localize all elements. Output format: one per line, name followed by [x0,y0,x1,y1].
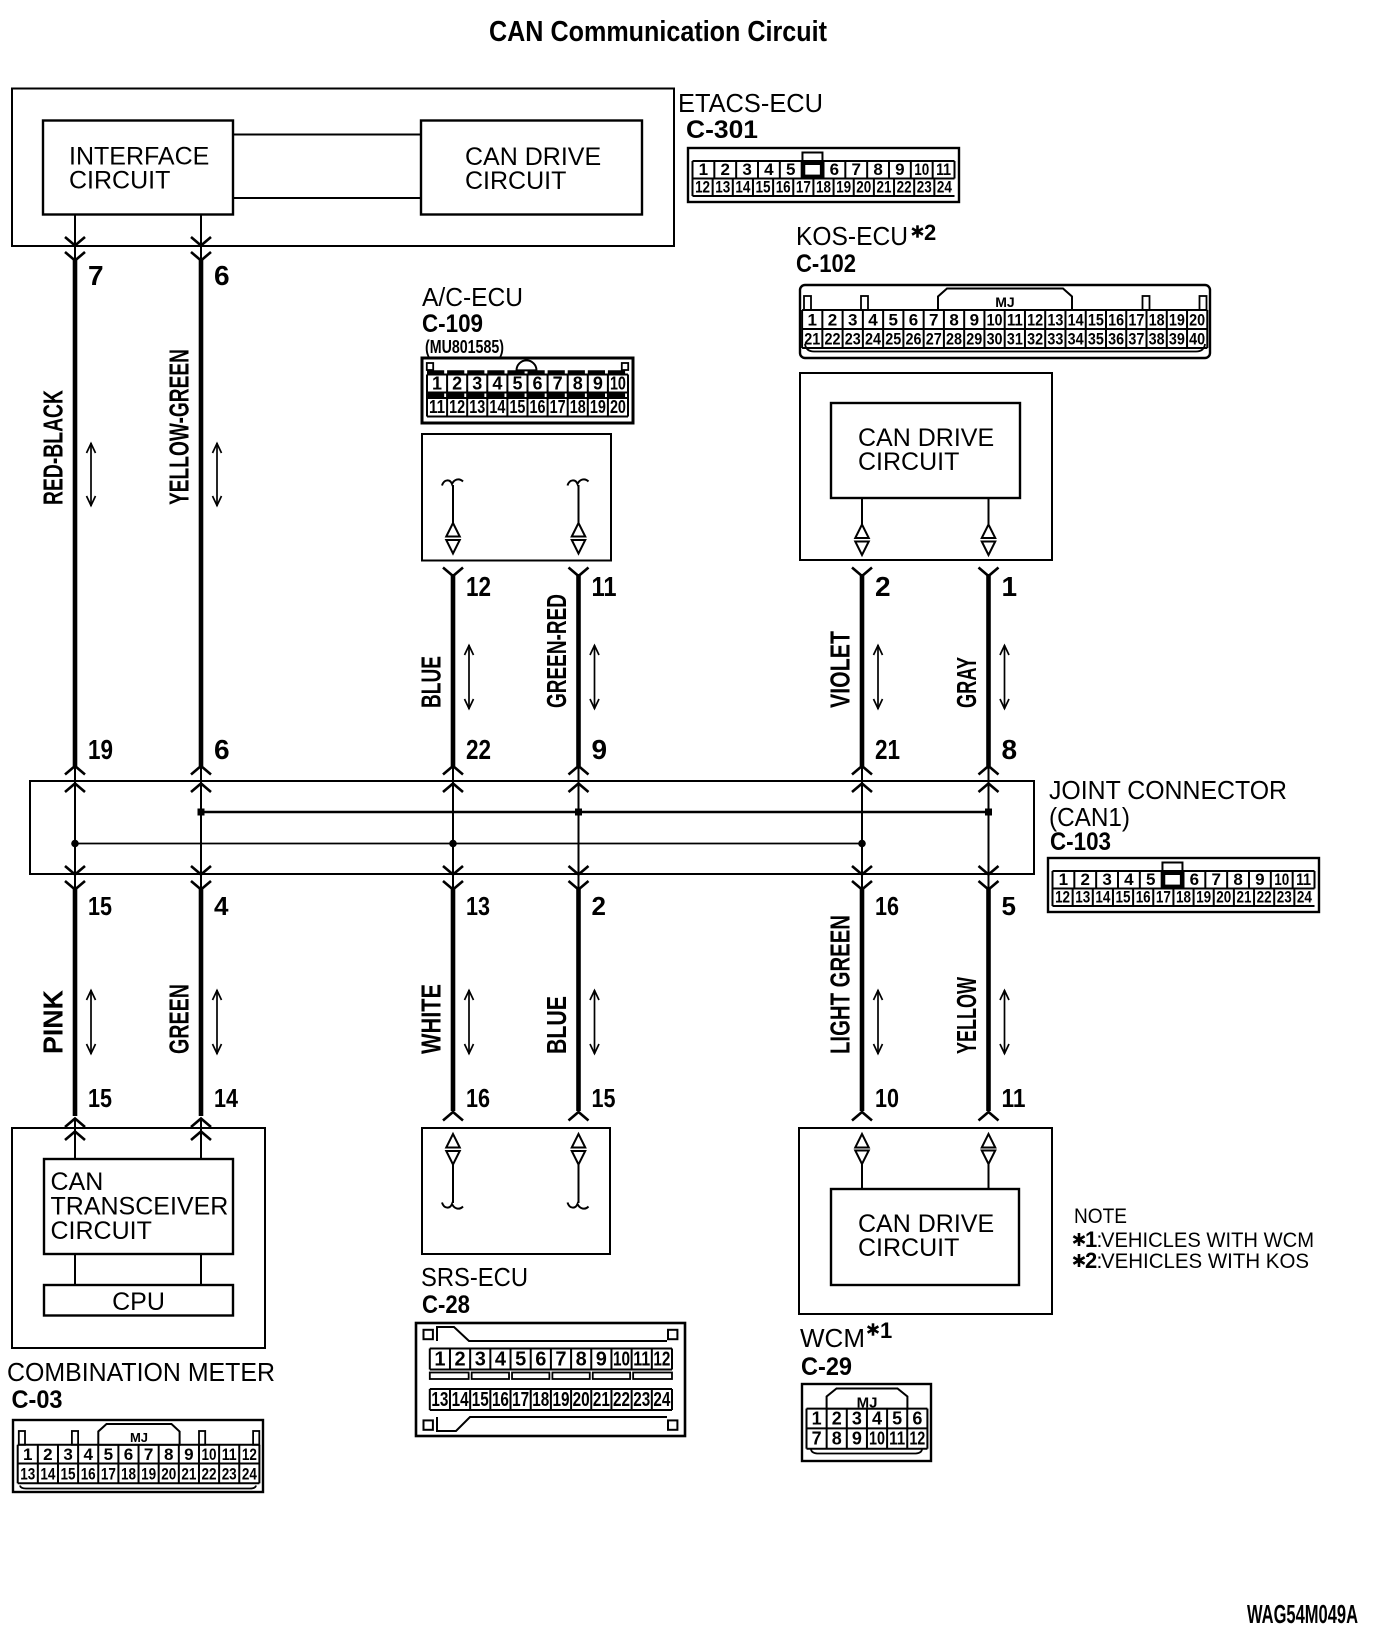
svg-text:6: 6 [214,734,230,765]
svg-text:MJ: MJ [857,1395,878,1412]
pin 2 (joint connector lower) [592,891,606,921]
wire label PINK [38,990,69,1054]
bidirectional arrow (YELLOW-GREEN wire) [213,443,222,506]
wire label GRAY [951,657,982,708]
interface circuit block U1 [43,121,233,215]
drawing number WAG54M049A [1247,1599,1358,1629]
CAN bus line (lower) [71,840,866,848]
label JOINT CONNECTOR (CAN1) [1049,775,1287,832]
wire LIGHT GREEN to WCM pin 10 [860,888,865,1111]
connector label C-29 [801,1353,852,1381]
svg-text:24: 24 [937,178,952,197]
svg-text:10: 10 [869,1429,885,1449]
wire end at SRS pin 15 (terminal chevron) [569,1112,589,1121]
wire label YELLOW [951,977,982,1054]
wire KOS pin 2 (VIOLET) [852,568,872,767]
CAN drive circuit block (ETACS) [421,121,642,215]
svg-text:GREEN-RED: GREEN-RED [541,594,572,708]
svg-text:25: 25 [885,329,901,348]
svg-text:23: 23 [633,1389,650,1411]
svg-text:CIRCUIT: CIRCUIT [858,448,959,476]
svg-text:16: 16 [776,178,791,197]
svg-text:5: 5 [892,1409,902,1429]
bidirectional arrow (WHITE wire) [465,990,474,1054]
svg-text:22: 22 [466,734,491,765]
svg-text:GREEN: GREEN [164,984,195,1054]
svg-text:8: 8 [873,160,882,179]
svg-text:21: 21 [593,1389,610,1411]
svg-text:17: 17 [1156,888,1171,907]
svg-text:4: 4 [495,1349,507,1371]
svg-text:10: 10 [610,374,626,394]
wire label RED-BLACK [38,390,69,505]
svg-text:C-301: C-301 [686,116,758,144]
svg-text:5: 5 [889,310,898,329]
svg-text:11: 11 [1296,870,1311,889]
svg-text:10: 10 [613,1349,630,1371]
svg-text:4: 4 [872,1409,882,1429]
svg-text:13: 13 [1047,310,1063,329]
svg-text:COMBINATION METER: COMBINATION METER [7,1357,275,1387]
svg-text:MJ: MJ [130,1430,148,1445]
wire ETACS pin 6 (YELLOW-GREEN) upper segment [191,215,211,767]
svg-text:5: 5 [512,374,522,394]
wire WHITE to SRS pin 16 [451,888,456,1111]
svg-text:18: 18 [121,1465,136,1484]
svg-text:LIGHT GREEN: LIGHT GREEN [825,915,856,1054]
connector C-102 pin grid [800,285,1210,358]
svg-text:18: 18 [532,1389,549,1411]
svg-text:3: 3 [63,1445,72,1464]
svg-text:9: 9 [852,1429,862,1449]
svg-text:1: 1 [699,160,708,179]
svg-text:29: 29 [966,329,982,348]
svg-text:C-103: C-103 [1050,828,1111,856]
svg-text:24: 24 [653,1389,671,1411]
svg-text:4: 4 [868,310,878,329]
label A/C-ECU [422,282,523,312]
pin 5 (joint connector lower) [1002,891,1016,921]
svg-text:6: 6 [909,310,918,329]
wire through joint connector at x=578.5 [569,766,589,890]
svg-text:CIRCUIT: CIRCUIT [51,1217,152,1245]
wire A/C pin 12 (BLUE) [443,568,463,767]
svg-text:15: 15 [88,1083,112,1113]
svg-text:1: 1 [807,310,816,329]
svg-text:PINK: PINK [38,990,69,1054]
pin 7 [88,260,104,291]
pin 12 [466,571,491,602]
svg-text:8: 8 [1002,734,1018,765]
wire label WHITE [416,984,447,1054]
svg-text:1: 1 [812,1409,822,1429]
svg-text:16: 16 [492,1389,509,1411]
bidirectional arrow (BLUE wire) [590,990,599,1054]
A/C internal stub pin 12 (pigtail and terminals) [442,479,463,553]
svg-text:14: 14 [40,1465,55,1484]
svg-text:2: 2 [592,891,606,921]
bidirectional arrow (BLUE wire) [465,645,474,709]
wire into combination meter pin 15 (terminal chevrons) [65,1119,85,1160]
KOS internal stub pin 2 (terminals) [855,498,869,555]
ECU box ETACS-ECU [12,89,674,247]
svg-text:15: 15 [1088,310,1104,329]
svg-text:19: 19 [141,1465,156,1484]
wire through joint connector at x=988.5 [979,766,999,890]
wire through joint connector at x=75 [65,766,85,890]
svg-text:1: 1 [23,1445,32,1464]
svg-text:23: 23 [845,329,861,348]
svg-text:WCM: WCM [800,1323,865,1353]
svg-text:7: 7 [812,1429,822,1449]
svg-text:10: 10 [914,160,929,179]
label SRS-ECU [421,1262,528,1292]
svg-text:2: 2 [1085,1248,1097,1273]
svg-text:6: 6 [830,160,839,179]
svg-text:10: 10 [202,1445,217,1464]
svg-text:2: 2 [452,374,462,394]
svg-text:8: 8 [949,310,958,329]
svg-text:C-109: C-109 [422,310,483,338]
svg-text:36: 36 [1108,329,1124,348]
svg-text:VEHICLES WITH WCM: VEHICLES WITH WCM [1101,1229,1314,1252]
ECU box KOS-ECU [800,373,1052,560]
svg-text:GRAY: GRAY [951,657,982,708]
pin 16 (SRS pin 16) [466,1083,490,1113]
svg-text:27: 27 [926,329,942,348]
svg-text:4: 4 [214,891,229,921]
pin 6 (joint connector) [214,734,230,765]
svg-text:A/C-ECU: A/C-ECU [422,282,523,312]
label WCM *1 [800,1318,892,1353]
svg-text:7: 7 [555,1349,566,1371]
svg-text:WHITE: WHITE [416,984,447,1054]
svg-text:24: 24 [865,329,881,348]
svg-text:11: 11 [936,160,951,179]
svg-text:15: 15 [472,1389,489,1411]
wire A/C pin 11 (GREEN-RED) [569,568,589,767]
svg-text:20: 20 [856,178,871,197]
svg-text:9: 9 [184,1445,193,1464]
svg-text:23: 23 [917,178,932,197]
svg-text:JOINT CONNECTOR: JOINT CONNECTOR [1049,775,1287,805]
svg-text:12: 12 [1027,310,1043,329]
connector C-28 pin grid [416,1323,685,1436]
svg-text:13: 13 [715,178,730,197]
svg-text:11: 11 [592,571,617,602]
label ETACS-ECU [678,88,823,118]
svg-text:13: 13 [431,1389,448,1411]
svg-text:3: 3 [852,1409,862,1429]
svg-text:12: 12 [909,1429,925,1449]
svg-text:16: 16 [466,1083,490,1113]
pin 2 [875,571,891,602]
svg-text:RED-BLACK: RED-BLACK [38,390,69,505]
svg-text:SRS-ECU: SRS-ECU [421,1262,528,1292]
svg-text:C-102: C-102 [796,250,856,278]
svg-text:KOS-ECU: KOS-ECU [796,221,908,251]
svg-text:MJ: MJ [995,294,1014,310]
svg-text:2: 2 [43,1445,52,1464]
svg-text:CAN Communication Circuit: CAN Communication Circuit [489,16,827,48]
wire end at WCM pin 10 (terminal chevron) [852,1112,872,1121]
svg-text:4: 4 [1124,870,1134,889]
svg-text:7: 7 [88,260,104,291]
svg-text:9: 9 [1255,870,1264,889]
connector C-03 pin grid [13,1420,263,1492]
svg-text:17: 17 [796,178,811,197]
svg-text:9: 9 [596,1349,607,1371]
CAN drive circuit block (KOS) [831,403,1020,498]
svg-text:12: 12 [1055,888,1070,907]
svg-text:8: 8 [832,1429,842,1449]
svg-text:24: 24 [1297,888,1312,907]
wire BLUE to SRS pin 15 [576,888,581,1111]
svg-text:9: 9 [592,734,608,765]
svg-text:CIRCUIT: CIRCUIT [69,167,170,195]
bidirectional arrow (YELLOW wire) [1000,990,1009,1054]
svg-text:18: 18 [1176,888,1191,907]
connector C-29 pin grid [802,1384,931,1461]
svg-text:NOTE: NOTE [1074,1205,1127,1228]
connector label C-28 [422,1291,470,1319]
connector label C-103 [1050,828,1111,856]
svg-text:11: 11 [222,1445,237,1464]
ECU box A/C-ECU [422,434,611,561]
svg-text:3: 3 [475,1349,486,1371]
svg-text:6: 6 [124,1445,133,1464]
pin 6 [214,260,230,291]
svg-text:31: 31 [1007,329,1023,348]
wire transceiver to CPU (right) [200,1254,202,1285]
wire KOS pin 1 (GRAY) [979,568,999,767]
wire through joint connector at x=453 [443,766,463,890]
svg-text:9: 9 [970,310,979,329]
svg-text:23: 23 [1277,888,1292,907]
wire GREEN to combination meter pin 14 [199,888,204,1116]
svg-text:16: 16 [1136,888,1151,907]
CPU block [44,1285,233,1316]
pin 8 (joint connector) [1002,734,1018,765]
wire YELLOW to WCM pin 11 [986,888,991,1111]
pin 19 (joint connector) [88,734,113,765]
svg-text:28: 28 [946,329,962,348]
svg-text:39: 39 [1169,329,1185,348]
svg-text:10: 10 [875,1083,899,1113]
svg-text:20: 20 [610,397,626,417]
pin 14 (combination meter pin 14) [214,1083,238,1113]
svg-text:4: 4 [83,1445,93,1464]
pin 11 [592,571,617,602]
svg-text:15: 15 [61,1465,76,1484]
SRS internal stub pin 15 (terminals and pigtail) [568,1134,589,1209]
pin 1 [1002,571,1018,602]
label COMBINATION METER [7,1357,275,1387]
ECU box SRS-ECU [422,1128,610,1254]
svg-text:13: 13 [20,1465,35,1484]
svg-text:40: 40 [1189,329,1205,348]
svg-text:C-03: C-03 [12,1386,63,1414]
joint connector (CAN1) body [30,781,1034,874]
svg-text:1: 1 [434,1349,445,1371]
wire label LIGHT GREEN [825,915,856,1054]
svg-text:CPU: CPU [112,1288,165,1316]
svg-text:2: 2 [828,310,837,329]
svg-text:WAG54M049A: WAG54M049A [1247,1599,1358,1629]
svg-text:13: 13 [469,397,485,417]
bidirectional arrow (GREEN-RED wire) [590,645,599,709]
svg-text:CIRCUIT: CIRCUIT [858,1234,959,1262]
bidirectional arrow (GRAY wire) [1000,645,1009,709]
label KOS-ECU *2 [796,220,936,251]
svg-text:1: 1 [1002,571,1018,602]
svg-text:BLUE: BLUE [541,996,572,1054]
svg-text:18: 18 [816,178,831,197]
svg-text:37: 37 [1128,329,1144,348]
svg-text:34: 34 [1068,329,1084,348]
svg-text:CIRCUIT: CIRCUIT [465,167,566,195]
svg-text:YELLOW-GREEN: YELLOW-GREEN [164,349,195,505]
svg-text:15: 15 [88,891,112,921]
wire: interface to CAN drive (lower) [233,197,421,199]
svg-text:22: 22 [897,178,912,197]
pin 10 (WCM pin 10) [875,1083,899,1113]
svg-text:22: 22 [202,1465,217,1484]
svg-text:17: 17 [1128,310,1144,329]
svg-text:12: 12 [653,1349,670,1371]
svg-text:21: 21 [875,734,900,765]
svg-text:16: 16 [1108,310,1124,329]
svg-text:17: 17 [101,1465,116,1484]
svg-text:1: 1 [880,1318,892,1343]
svg-text:20: 20 [1216,888,1231,907]
wire end at WCM pin 11 (terminal chevron) [979,1112,999,1121]
svg-text:ETACS-ECU: ETACS-ECU [678,88,823,118]
pin 22 (joint connector) [466,734,491,765]
svg-text:23: 23 [222,1465,237,1484]
svg-text:18: 18 [1149,310,1165,329]
pin 15 (joint connector lower) [88,891,112,921]
svg-text:2: 2 [832,1409,842,1429]
WCM internal stub pin 11 (terminals) [982,1134,996,1189]
svg-text:4: 4 [492,374,502,394]
svg-text:13: 13 [466,891,490,921]
wire label VIOLET [825,631,856,708]
svg-text:15: 15 [509,397,525,417]
CAN bus line (upper) [198,809,993,816]
connector C-103 pin grid [1048,858,1319,912]
svg-text:9: 9 [895,160,904,179]
pin 15 (combination meter pin 15) [88,1083,112,1113]
svg-text:VEHICLES WITH KOS: VEHICLES WITH KOS [1101,1250,1309,1273]
svg-text:15: 15 [1116,888,1131,907]
svg-text:5: 5 [1146,870,1155,889]
svg-text:3: 3 [472,374,482,394]
svg-text:5: 5 [786,160,795,179]
svg-text:13: 13 [1075,888,1090,907]
svg-text:7: 7 [144,1445,153,1464]
svg-text:19: 19 [836,178,851,197]
svg-text:1: 1 [432,374,442,394]
ECU box COMBINATION METER [12,1128,265,1348]
svg-text:14: 14 [735,178,750,197]
svg-text:16: 16 [530,397,546,417]
svg-text:22: 22 [613,1389,630,1411]
pin 11 (WCM pin 11) [1002,1083,1026,1113]
pin 21 (joint connector) [875,734,900,765]
svg-text:21: 21 [876,178,891,197]
svg-text:6: 6 [1190,870,1199,889]
svg-text:6: 6 [214,260,230,291]
pin 16 (joint connector lower) [875,891,899,921]
wire label BLUE [416,656,447,708]
svg-text:21: 21 [804,329,820,348]
svg-text:10: 10 [1274,870,1289,889]
svg-text:6: 6 [912,1409,922,1429]
wire: interface to CAN drive (upper) [233,134,421,136]
svg-text:VIOLET: VIOLET [825,631,856,708]
svg-text:30: 30 [987,329,1003,348]
bidirectional arrow (VIOLET wire) [874,645,883,709]
CAN transceiver circuit block [44,1159,233,1254]
svg-text:20: 20 [573,1389,590,1411]
svg-text:14: 14 [489,397,505,417]
svg-text:26: 26 [906,329,922,348]
svg-text:3: 3 [742,160,751,179]
svg-text:19: 19 [1169,310,1185,329]
svg-text:C-29: C-29 [801,1353,852,1381]
svg-text:19: 19 [590,397,606,417]
svg-text:8: 8 [1233,870,1242,889]
svg-text:11: 11 [429,397,445,417]
svg-text:35: 35 [1088,329,1104,348]
svg-text:32: 32 [1027,329,1043,348]
svg-text:3: 3 [848,310,857,329]
svg-text:33: 33 [1047,329,1063,348]
wire through joint connector at x=201 [191,766,211,890]
svg-text:11: 11 [889,1429,905,1449]
svg-text:10: 10 [987,310,1003,329]
svg-text:19: 19 [1196,888,1211,907]
pin 9 (joint connector) [592,734,608,765]
svg-text:11: 11 [1002,1083,1026,1113]
svg-text:YELLOW: YELLOW [951,977,982,1054]
A/C internal stub pin 11 (pigtail and terminals) [568,479,589,553]
svg-text:16: 16 [875,891,899,921]
svg-text:8: 8 [573,374,583,394]
pin 15 (SRS pin 15) [592,1083,616,1113]
svg-text:8: 8 [164,1445,173,1464]
svg-text:6: 6 [533,374,543,394]
wire into combination meter pin 14 (terminal chevrons) [191,1119,211,1160]
wire label GREEN-RED [541,594,572,708]
svg-text:14: 14 [452,1389,470,1411]
svg-text:19: 19 [552,1389,569,1411]
svg-text:C-28: C-28 [422,1291,470,1319]
WCM internal stub pin 10 (terminals) [855,1134,869,1189]
svg-text:15: 15 [756,178,771,197]
svg-text:22: 22 [1257,888,1272,907]
svg-text:2: 2 [875,571,891,602]
SRS internal stub pin 16 (terminals and pigtail) [442,1134,463,1209]
svg-text:21: 21 [181,1465,196,1484]
svg-text:8: 8 [576,1349,587,1371]
svg-text:5: 5 [515,1349,526,1371]
svg-text:2: 2 [721,160,730,179]
svg-text:7: 7 [553,374,563,394]
svg-text:14: 14 [214,1083,238,1113]
pin 13 (joint connector lower) [466,891,490,921]
